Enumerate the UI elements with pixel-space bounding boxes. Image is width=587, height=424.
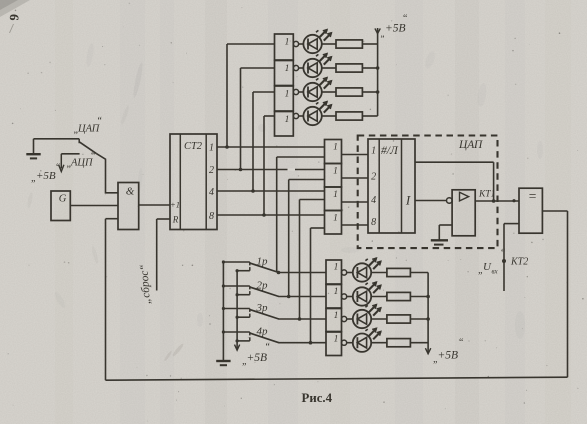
switch bank ground rail <box>222 262 224 360</box>
wire AND output to counter +1 input <box>139 204 170 206</box>
comparator box (=) <box>519 188 542 233</box>
label I (DAC current output) <box>405 193 411 208</box>
switch 3р blade <box>250 310 278 319</box>
svg-text:4: 4 <box>371 195 376 206</box>
LED (top bank) 3 <box>303 78 331 102</box>
switch 1р blade <box>250 263 278 272</box>
LED (top bank) 2 <box>303 54 331 78</box>
resistor (top bank) 4 <box>336 112 362 120</box>
inverter (bottom bank) 2 <box>326 285 347 309</box>
wire switch pole to AND gate input <box>96 153 118 192</box>
wire riser bit2 to top inverter 2 <box>241 68 275 170</box>
feedback loop bottom wire <box>106 377 568 380</box>
wire switch 4р output to inverter <box>279 341 327 345</box>
svg-text:КТ2: КТ2 <box>510 257 528 268</box>
wire LED to resistor (top 1) <box>321 43 336 45</box>
svg-text:&: & <box>126 186 135 198</box>
wire switch 4r riser to OR4 <box>311 228 325 343</box>
switch 3р lower +5V stub <box>236 314 250 319</box>
svg-text:1: 1 <box>334 263 339 273</box>
wire CT2 out 1 bus <box>217 145 325 149</box>
resistor (bottom bank) 3 <box>387 315 411 323</box>
LED (bottom bank) 2 <box>353 282 381 306</box>
wire CT2 out 8 bus <box>217 213 325 217</box>
switch 2р upper contact wire <box>222 284 250 289</box>
wire resistor to +5V rail (bottom 4) <box>410 342 428 344</box>
wire riser bit4 to top inverter 3 <box>253 92 275 191</box>
label pin 1 (CT2) <box>209 143 214 154</box>
wire resistor to +5V rail (top 1) <box>362 43 377 45</box>
wire ground to switch contact CAP <box>34 138 80 140</box>
label ACP (АЦП position) <box>67 151 97 170</box>
page number 6 (rotated margin numeral) <box>7 14 23 22</box>
wire OR4 out to DAC pin 8 <box>342 224 369 226</box>
switch 2р lower +5V stub <box>236 291 250 296</box>
wire switch 3р output to inverter <box>279 317 327 321</box>
svg-text:2р: 2р <box>257 280 269 292</box>
svg-text:1: 1 <box>285 64 290 74</box>
wire LED to resistor (bottom 2) <box>371 296 387 298</box>
label sbros (сброс, rotated) <box>138 264 153 305</box>
svg-text:1: 1 <box>285 115 290 125</box>
OR gate (middle) 2 <box>325 164 342 188</box>
wire inverter to LED (bottom 3) <box>347 318 354 320</box>
wire DAC I output to amplifier <box>415 200 447 202</box>
svg-text:1: 1 <box>334 311 339 321</box>
wire CT2 out 4 bus <box>217 189 325 193</box>
label +5V (near ACP) <box>31 163 61 185</box>
svg-text:1р: 1р <box>257 256 269 268</box>
wire resistor to +5V rail (top 2) <box>362 67 377 69</box>
inverter (bottom bank) 1 <box>326 260 347 284</box>
wire switch 2r riser to OR2 <box>289 180 325 297</box>
DAC converter block (#/Л) <box>368 139 415 233</box>
wire riser bit1 to top inverter 1 <box>227 44 275 147</box>
svg-text:I: I <box>405 193 411 208</box>
wire amplifier output KT1 <box>475 199 519 202</box>
inverter (top bank) 4 <box>275 112 299 137</box>
amplifier input bubble <box>447 198 453 204</box>
wire inverter 1 to LED (top) <box>299 43 304 45</box>
wire inverter to LED (bottom 4) <box>347 342 354 344</box>
label DAC pin 1 <box>371 146 376 157</box>
label CT2 <box>184 141 203 152</box>
wire OR1 out to DAC pin 1 <box>342 154 369 156</box>
svg-text:“: “ <box>458 338 464 349</box>
svg-text:1: 1 <box>285 90 290 100</box>
label KT1 <box>478 190 495 200</box>
switch SA1 contact ACP stub <box>61 153 79 155</box>
feedback loop left vertical to AND gate <box>106 219 119 381</box>
wire resistor to +5V rail (bottom 3) <box>410 318 428 320</box>
svg-text:Рис.4: Рис.4 <box>302 391 333 405</box>
wire comparator output to feedback loop <box>542 210 567 212</box>
svg-text:R: R <box>172 215 179 225</box>
wire LED to resistor (bottom 3) <box>371 318 387 320</box>
inverter (top bank) 1 <box>275 34 299 60</box>
wire LED to resistor (bottom 1) <box>371 272 387 274</box>
svg-text:“: “ <box>500 248 506 259</box>
wire resistor to +5V rail (top 3) <box>362 91 377 93</box>
label pin 2 (CT2) <box>209 165 214 176</box>
resistor (bottom bank) 2 <box>387 292 411 300</box>
label CAP (ЦАП block name) <box>458 139 483 151</box>
LED (top bank) 4 <box>303 102 331 126</box>
wire inverter to LED (bottom 2) <box>347 296 354 298</box>
label +5V (bottom rail) <box>433 338 464 366</box>
wire inverter 2 to LED (top) <box>299 67 304 69</box>
svg-text:ЦАП: ЦАП <box>458 139 483 151</box>
svg-text:1: 1 <box>209 143 214 154</box>
label pin 8 (CT2) <box>209 211 214 222</box>
label 1р <box>257 256 269 268</box>
label = sign <box>529 189 537 204</box>
wire LED to resistor (top 4) <box>321 115 336 117</box>
svg-text:8: 8 <box>371 217 376 228</box>
svg-text:8: 8 <box>209 211 214 222</box>
KT2 test point dot <box>502 259 506 263</box>
label #/Л <box>381 145 399 157</box>
svg-text:2: 2 <box>209 165 214 176</box>
caption Ris.4 <box>302 391 333 405</box>
amplifier ground <box>431 225 452 245</box>
inverter (bottom bank) 4 <box>326 332 347 356</box>
LED (top bank) 1 <box>303 30 331 54</box>
label &amp; (AND) <box>126 186 135 198</box>
LED (bottom bank) 1 <box>353 258 381 282</box>
label G <box>59 194 67 205</box>
svg-text:2: 2 <box>371 172 376 183</box>
wire switch 1r riser to OR1 <box>277 157 325 273</box>
svg-text:1: 1 <box>333 167 338 177</box>
switch SA1 blade <box>79 142 96 154</box>
svg-text:1: 1 <box>334 287 339 297</box>
wire resistor to +5V rail (bottom 2) <box>410 296 428 298</box>
svg-text:СТ2: СТ2 <box>184 141 203 152</box>
wire inverter 4 to LED (top) <box>299 115 304 117</box>
ground symbol (selector switch upper contact) <box>26 139 40 159</box>
svg-text:вх: вх <box>492 268 499 276</box>
svg-text:+5В: +5В <box>247 352 268 364</box>
svg-text:1: 1 <box>371 146 376 157</box>
label CAP (ЦАП position) <box>74 116 103 136</box>
label 2р <box>257 280 269 292</box>
wire comparator lower input / Uin probe <box>504 224 519 291</box>
inverter (bottom bank) 3 <box>326 309 347 332</box>
svg-text:3р: 3р <box>256 302 269 314</box>
svg-text:#/Л: #/Л <box>381 145 399 157</box>
svg-text:“: “ <box>55 163 61 174</box>
svg-text:=: = <box>529 189 537 204</box>
OR gate (middle) 1 <box>325 140 342 164</box>
label DAC pin 8 <box>371 217 376 228</box>
svg-text:“: “ <box>265 342 271 353</box>
OR gate (middle) 3 <box>325 187 342 211</box>
wire resistor to +5V rail (bottom 1) <box>410 272 428 274</box>
+5V rail (bottom LED bank) <box>425 273 430 354</box>
OR gate (middle) 4 <box>325 211 342 235</box>
svg-text:1: 1 <box>333 214 338 224</box>
wire switch 1р output to inverter <box>277 271 326 275</box>
wire switch 2р output to inverter <box>279 295 327 299</box>
label pin +1 <box>170 200 180 210</box>
switch bank +5V rail <box>235 271 240 350</box>
wire CT2 out 2 bus <box>217 168 325 172</box>
svg-text:4р: 4р <box>257 326 269 338</box>
svg-text:1: 1 <box>285 38 290 48</box>
svg-text:G: G <box>59 194 67 205</box>
label 3р <box>256 302 269 314</box>
label DAC pin 2 <box>371 172 376 183</box>
wire LED to resistor (top 3) <box>321 91 336 93</box>
svg-text:1: 1 <box>333 190 338 200</box>
wire G output to AND gate <box>70 205 118 207</box>
wire reset (sbros) to counter R input <box>157 219 170 291</box>
switch 4р lower +5V stub <box>236 337 250 342</box>
wire resistor to +5V rail (top 4) <box>362 115 377 117</box>
resistor (bottom bank) 1 <box>387 268 411 276</box>
svg-text:“: “ <box>90 151 96 162</box>
wire DAC feedback top <box>415 162 496 203</box>
resistor (bottom bank) 4 <box>387 339 411 347</box>
amplifier U2 box <box>452 190 475 236</box>
wire LED to resistor (top 2) <box>321 67 336 69</box>
svg-text:+5В: +5В <box>36 170 56 182</box>
svg-text:+5В: +5В <box>438 350 459 362</box>
svg-text:“: “ <box>97 116 103 127</box>
LED (bottom bank) 4 <box>353 328 381 352</box>
resistor (top bank) 2 <box>336 64 362 72</box>
wire OR3 out to DAC pin 4 <box>342 201 369 203</box>
switch 1р upper contact wire <box>222 260 250 265</box>
+5V feed arrow to ACP contact <box>59 154 64 172</box>
switch 2р blade <box>250 287 278 296</box>
wire inverter 3 to LED (top) <box>299 91 304 93</box>
ground symbol (switch bank) <box>216 361 230 365</box>
label +5V (switch bank) <box>242 342 271 367</box>
wire inverter to LED (bottom 1) <box>347 272 354 274</box>
switch 4р blade <box>250 333 278 343</box>
label DAC pin 4 <box>371 195 376 206</box>
label KT2 <box>510 257 528 268</box>
svg-text:+1: +1 <box>170 200 180 210</box>
wire riser bit8 to top inverter 4 <box>264 116 275 215</box>
svg-text:1: 1 <box>333 143 338 153</box>
generator G1 box <box>51 191 70 221</box>
inverter (top bank) 3 <box>275 86 299 111</box>
wire OR2 out to DAC pin 2 <box>342 177 369 179</box>
label pin 4 (CT2) <box>209 187 214 198</box>
label 4р <box>257 326 269 338</box>
LED (bottom bank) 3 <box>353 305 381 329</box>
svg-text:“: “ <box>402 14 408 25</box>
wire switch 3r riser to OR3 <box>300 200 325 320</box>
counter CT2 box <box>170 134 217 230</box>
svg-text:КТ1: КТ1 <box>478 190 495 200</box>
switch 1р lower +5V stub <box>236 267 250 272</box>
resistor (top bank) 3 <box>336 88 362 96</box>
DAC dashed boundary box <box>358 136 498 249</box>
wire LED to resistor (bottom 4) <box>371 342 387 344</box>
+5V rail (top LED bank) <box>375 28 380 116</box>
label pin R <box>172 215 179 225</box>
resistor (top bank) 1 <box>336 40 362 48</box>
inverter (top bank) 2 <box>275 61 299 86</box>
switch 4р upper contact wire <box>222 330 250 335</box>
label +5V (top rail) <box>381 14 409 39</box>
switch 3р upper contact wire <box>222 307 250 312</box>
AND gate DD1 box <box>118 183 139 230</box>
svg-text:4: 4 <box>209 187 214 198</box>
feedback loop right vertical <box>567 211 569 377</box>
label Uin (Uвх) <box>478 248 506 276</box>
svg-text:1: 1 <box>334 335 339 345</box>
switch SA1 contact tick CAP <box>78 139 80 143</box>
